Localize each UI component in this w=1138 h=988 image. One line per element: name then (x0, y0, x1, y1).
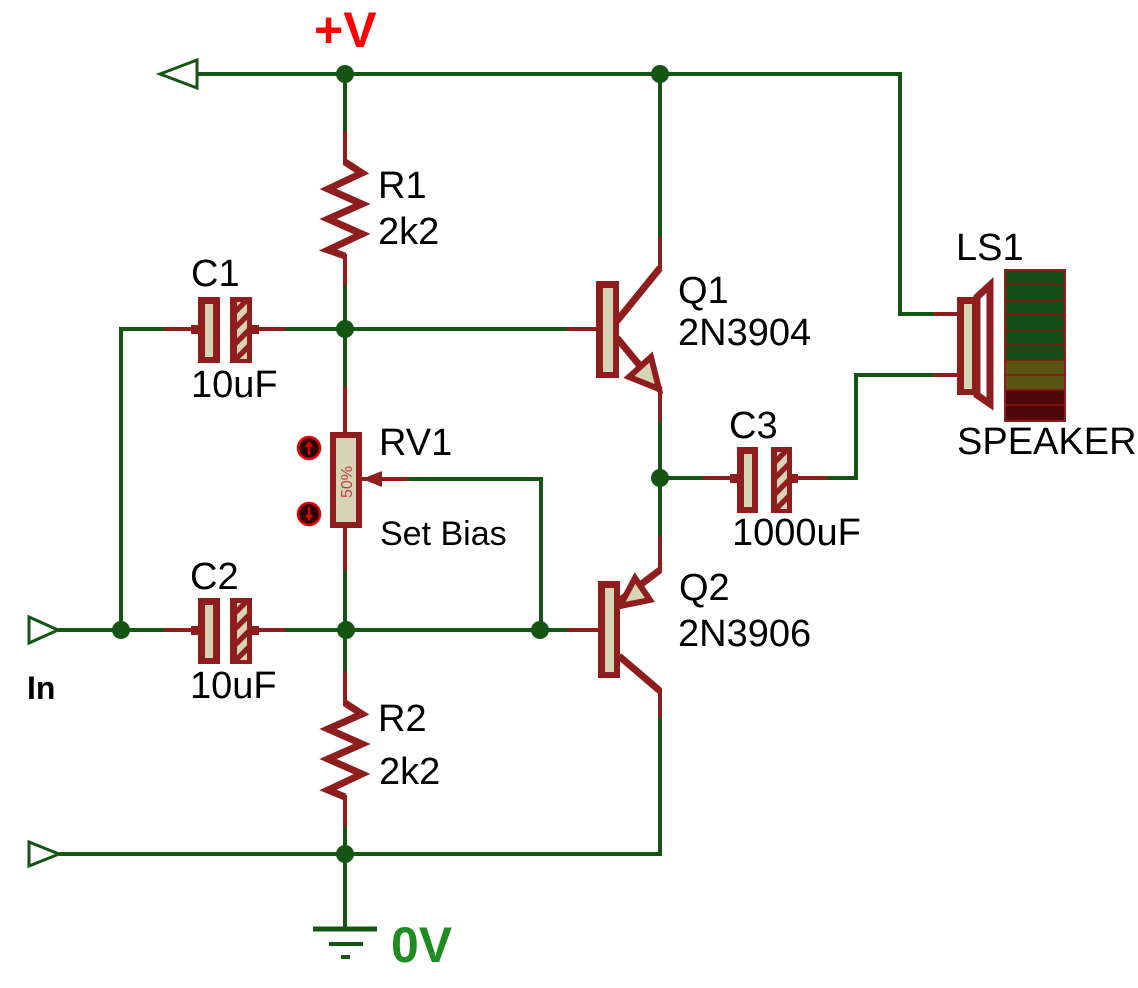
svg-text:2k2: 2k2 (378, 211, 439, 253)
svg-text:2k2: 2k2 (379, 751, 440, 793)
svg-text:+V: +V (314, 2, 377, 58)
svg-text:LS1: LS1 (956, 227, 1024, 269)
svg-text:10uF: 10uF (191, 364, 278, 406)
svg-text:In: In (27, 670, 55, 706)
svg-text:1000uF: 1000uF (732, 512, 861, 554)
svg-text:10uF: 10uF (190, 665, 277, 707)
svg-text:50%: 50% (339, 466, 356, 498)
svg-text:C3: C3 (729, 405, 778, 447)
svg-text:R2: R2 (378, 698, 427, 740)
svg-text:C1: C1 (191, 253, 240, 295)
svg-text:Q1: Q1 (678, 270, 729, 312)
svg-text:2N3904: 2N3904 (678, 312, 811, 354)
svg-text:Q2: Q2 (679, 567, 730, 609)
svg-text:Set Bias: Set Bias (380, 515, 507, 553)
svg-text:C2: C2 (190, 556, 239, 598)
svg-text:RV1: RV1 (379, 422, 452, 464)
svg-text:R1: R1 (378, 165, 427, 207)
svg-text:0V: 0V (391, 917, 453, 973)
svg-text:2N3906: 2N3906 (678, 613, 811, 655)
svg-text:SPEAKER: SPEAKER (957, 421, 1137, 463)
